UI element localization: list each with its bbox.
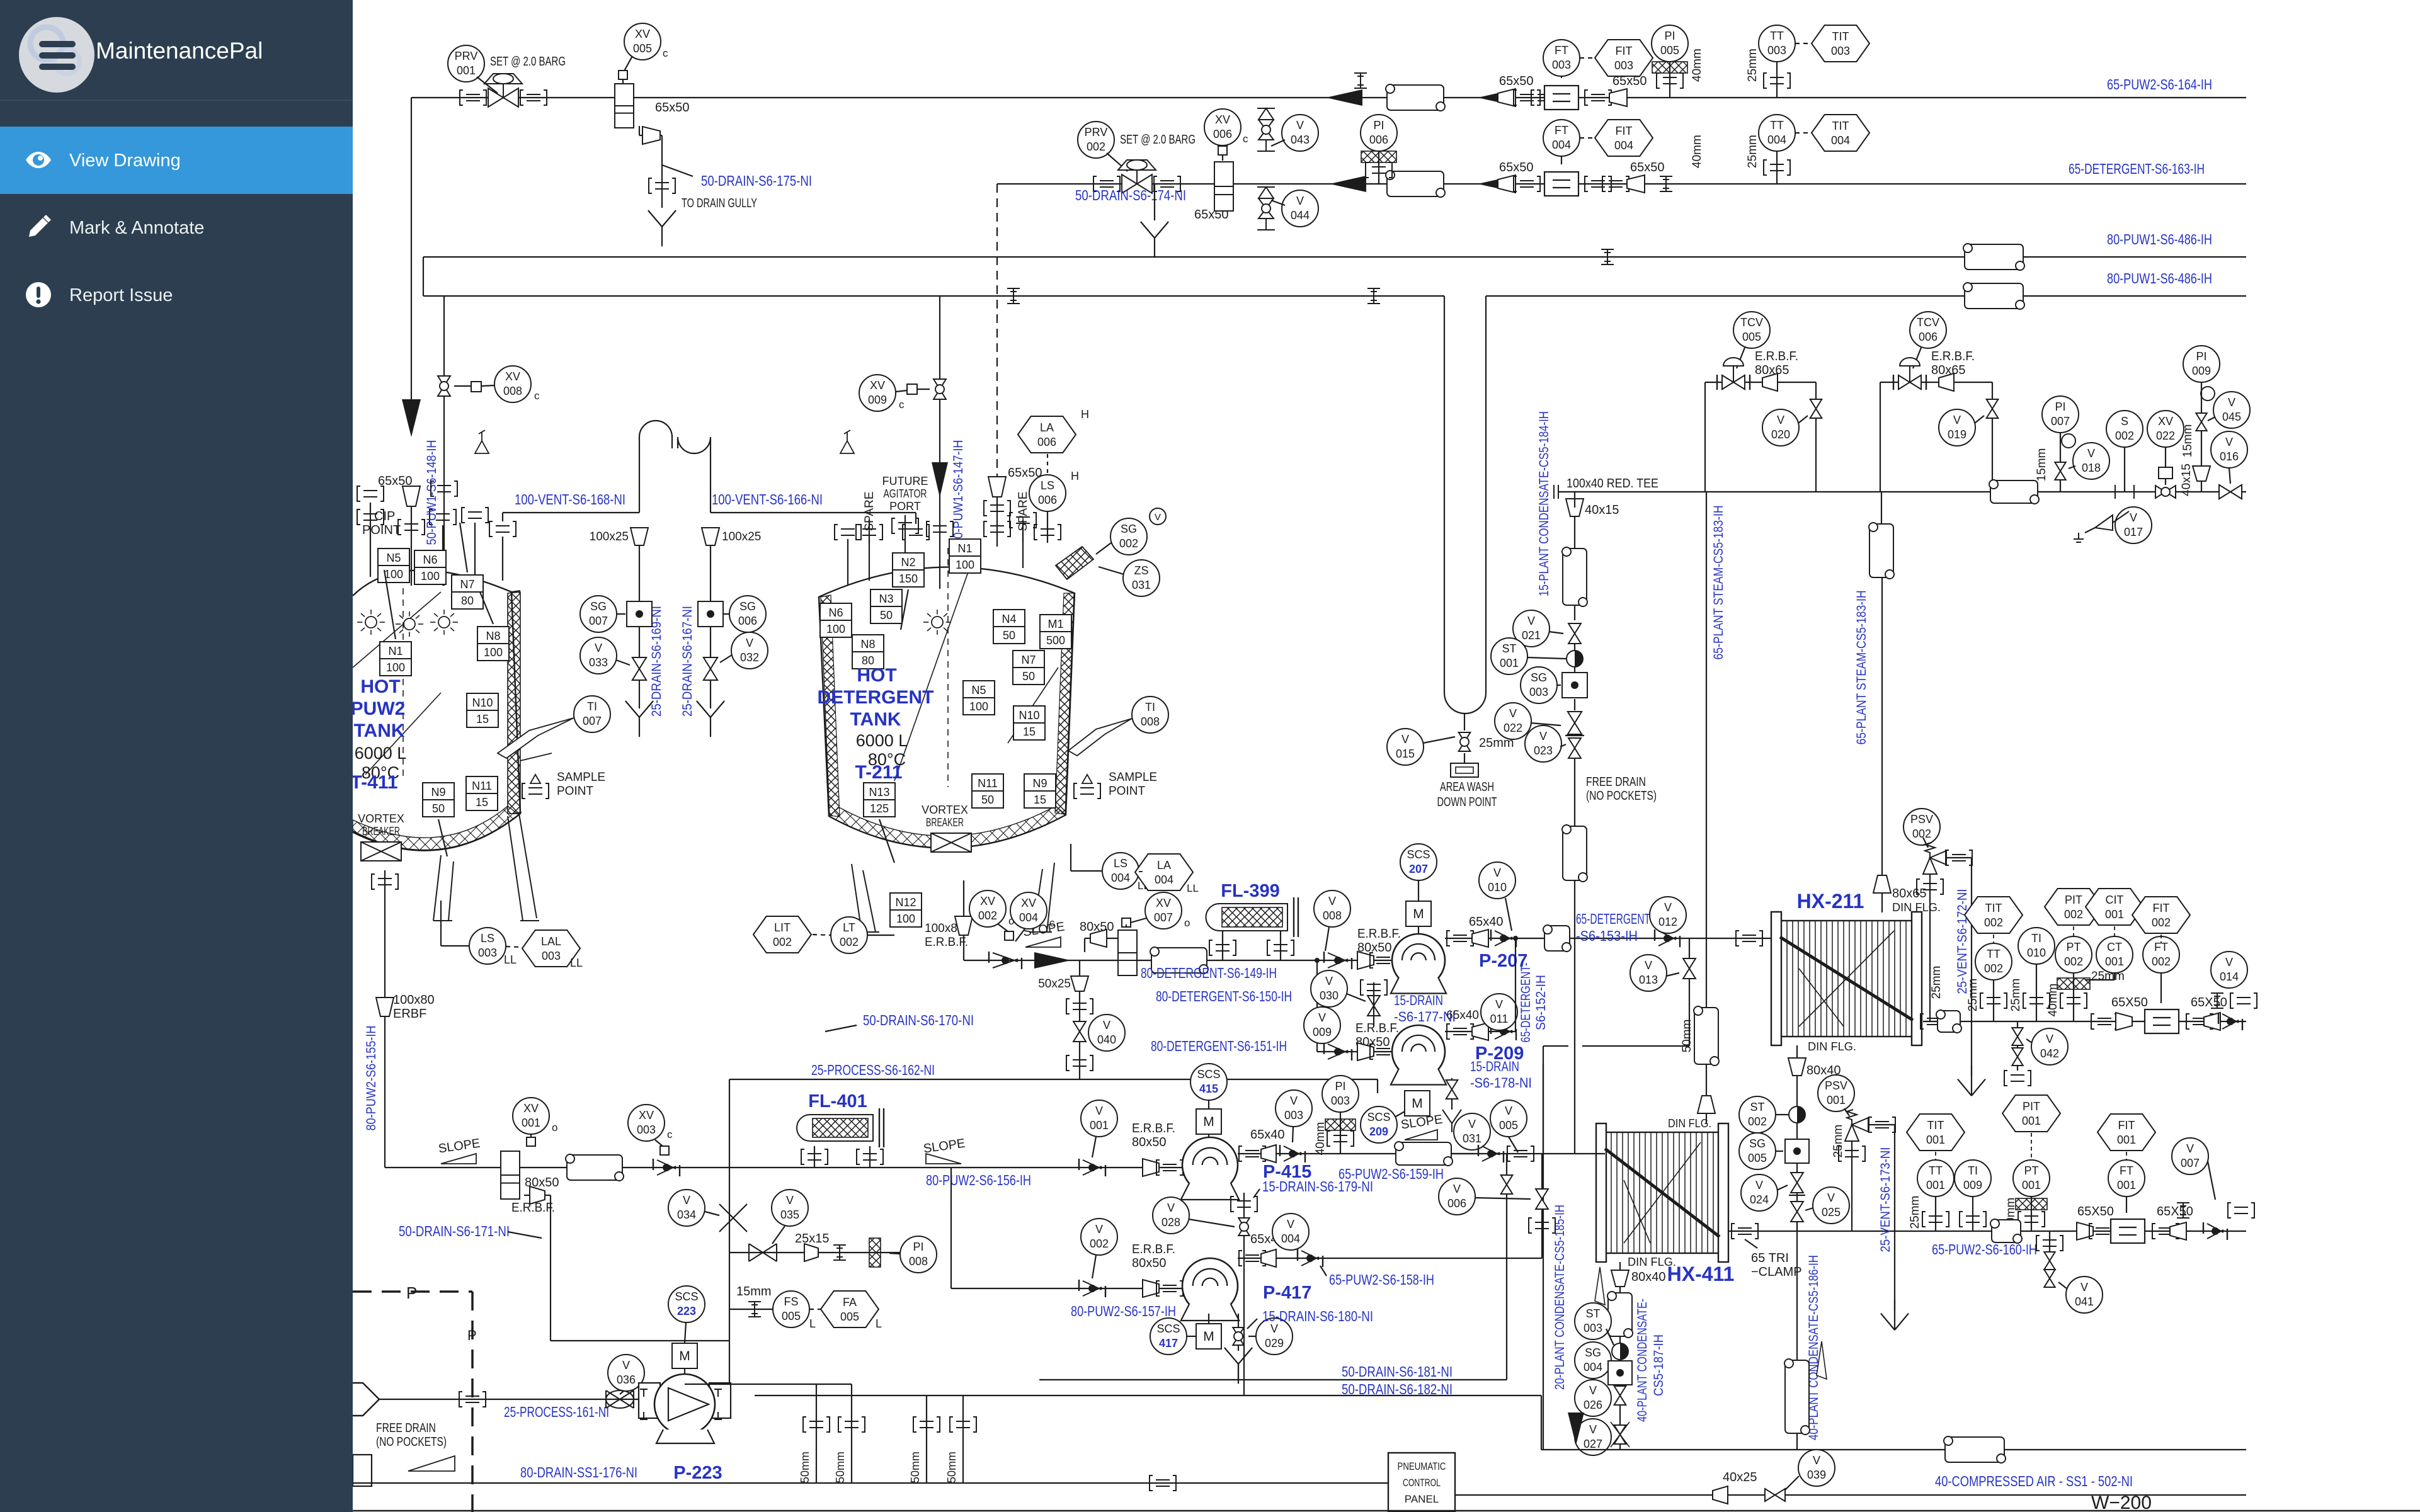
- svg-text:003: 003: [637, 1123, 656, 1136]
- instrument FIT-002: [2132, 897, 2190, 933]
- instrument XV-001: [513, 1098, 549, 1134]
- wire vent header 166: [711, 512, 916, 513]
- svg-text:031: 031: [1132, 579, 1151, 591]
- svg-text:N12: N12: [895, 896, 916, 909]
- tank T-211 outlet drop: [963, 880, 964, 960]
- steam trap ST-001: [1567, 651, 1583, 667]
- svg-text:c: c: [667, 1128, 673, 1140]
- svg-text:P: P: [467, 1327, 477, 1343]
- svg-text:022: 022: [1504, 722, 1522, 734]
- svg-text:V: V: [1296, 119, 1304, 132]
- pipe sleeve free drain: [1562, 825, 1587, 882]
- pipe sleeve steam drop hx211: [1869, 523, 1894, 579]
- instrument PI-009: [2183, 346, 2220, 382]
- wire drain to gully: [661, 135, 663, 208]
- wire crossover to HX-411 feed: [1582, 1045, 1689, 1047]
- svg-text:LA: LA: [1040, 421, 1054, 434]
- svg-text:25-PROCESS-161-NI: 25-PROCESS-161-NI: [504, 1404, 609, 1420]
- svg-text:(NO POCKETS): (NO POCKETS): [376, 1435, 447, 1449]
- svg-text:65-PLANT STEAM-CS5-183-IH: 65-PLANT STEAM-CS5-183-IH: [1711, 506, 1726, 660]
- valve V-024: [1791, 1173, 1803, 1193]
- svg-text:80-PUW1-S6-486-IH: 80-PUW1-S6-486-IH: [2107, 231, 2212, 247]
- instrument V-010: [1479, 862, 1515, 899]
- svg-text:003: 003: [1614, 59, 1633, 72]
- tank T-211 nozzle M1: [1040, 615, 1071, 649]
- pipe sleeve condensate header: [1944, 1436, 2006, 1463]
- spec break L2: [1660, 176, 1672, 191]
- svg-text:PI: PI: [1335, 1080, 1345, 1093]
- svg-text:004: 004: [1281, 1232, 1300, 1245]
- svg-text:V: V: [1095, 1105, 1103, 1117]
- instrument V-041: [2066, 1276, 2103, 1313]
- instrument V-024: [1741, 1174, 1778, 1211]
- svg-text:80-DETERGENT-S6-150-IH: 80-DETERGENT-S6-150-IH: [1156, 988, 1292, 1004]
- svg-text:25mm: 25mm: [1479, 736, 1514, 750]
- svg-text:001: 001: [1926, 1134, 1945, 1146]
- reducer 100x25 right: [702, 528, 719, 545]
- filter FL-399: [1206, 904, 1288, 931]
- drain Y P-417: [1224, 1348, 1252, 1384]
- instrument FT-001: [2108, 1160, 2145, 1197]
- valve V-025: [1791, 1202, 1803, 1222]
- svg-text:009: 009: [1313, 1026, 1332, 1038]
- instrument V-034b: [668, 1190, 705, 1226]
- wire steam header 100x40 RED TEE: [1558, 491, 2246, 492]
- svg-text:LS: LS: [1114, 857, 1127, 870]
- valve V-042 drop: [2017, 1021, 2018, 1071]
- svg-text:15-PLANT CONDENSATE-CS5-184-IH: 15-PLANT CONDENSATE-CS5-184-IH: [1537, 411, 1551, 596]
- svg-text:CIP: CIP: [374, 509, 395, 523]
- instrument SCS-209: [1361, 1106, 1397, 1143]
- svg-text:034: 034: [677, 1208, 696, 1221]
- svg-text:008: 008: [503, 385, 522, 397]
- instrument V-020: [1762, 409, 1799, 446]
- vent gooseneck left: [639, 421, 672, 513]
- instrument V-014: [2211, 952, 2247, 988]
- svg-text:FIT: FIT: [1616, 125, 1633, 137]
- tank T-211 nozzle N3: [870, 589, 902, 623]
- instrument TI-009: [1955, 1160, 1991, 1197]
- tank T-211 internal lines: [894, 567, 970, 781]
- wire detergent suction header: [964, 960, 1317, 961]
- svg-text:25x15: 25x15: [795, 1232, 830, 1246]
- valve-dot P-415 suction: [1079, 1159, 1105, 1176]
- svg-text:006: 006: [1447, 1197, 1466, 1210]
- instrument V-031: [1454, 1113, 1490, 1150]
- relief tri symbol left of vents: [475, 430, 489, 453]
- svg-text:DOWN POINT: DOWN POINT: [1437, 795, 1497, 809]
- svg-text:50-DRAIN-S6-175-NI: 50-DRAIN-S6-175-NI: [701, 173, 812, 189]
- svg-text:50mm: 50mm: [945, 1452, 958, 1483]
- instrument PSV-001: [1818, 1075, 1854, 1111]
- svg-text:009: 009: [1963, 1179, 1982, 1191]
- svg-text:035: 035: [780, 1208, 799, 1221]
- svg-text:XV: XV: [1156, 897, 1171, 909]
- control valve TCV-006: [1898, 375, 1921, 389]
- svg-text:65-PLANT STEAM-CS5-183-IH: 65-PLANT STEAM-CS5-183-IH: [1854, 591, 1869, 745]
- svg-text:POINT: POINT: [557, 785, 593, 798]
- svg-text:032: 032: [740, 651, 759, 664]
- flange flags near T-411 top: [357, 486, 384, 501]
- svg-text:100: 100: [969, 700, 988, 713]
- svg-text:25mm: 25mm: [2009, 979, 2023, 1012]
- app logo: [19, 17, 94, 93]
- pump P-417: [1182, 1258, 1238, 1314]
- svg-text:40-PLANT CONDENSATE-: 40-PLANT CONDENSATE-: [1635, 1299, 1650, 1422]
- svg-text:H: H: [1071, 470, 1079, 482]
- svg-text:N1: N1: [957, 542, 972, 555]
- flow arrow L1 b: [1478, 89, 1514, 106]
- svg-text:N8: N8: [860, 638, 875, 651]
- svg-text:PANEL: PANEL: [1405, 1493, 1439, 1505]
- svg-text:N13: N13: [869, 786, 889, 799]
- svg-text:024: 024: [1750, 1193, 1769, 1206]
- svg-text:65-DETERGENT-S6-163-IH: 65-DETERGENT-S6-163-IH: [2069, 161, 2205, 177]
- svg-text:25mm: 25mm: [1930, 966, 1943, 999]
- svg-text:N6: N6: [828, 606, 843, 619]
- junction suction split: [1316, 960, 1318, 1052]
- svg-text:40mm: 40mm: [1691, 48, 1704, 82]
- wire vent drop left: [639, 545, 640, 708]
- svg-text:V: V: [1318, 1011, 1326, 1024]
- angle valve V-017: [2095, 511, 2129, 530]
- instrument SCS-223: [668, 1286, 705, 1322]
- svg-text:65x50: 65x50: [1499, 74, 1534, 88]
- P-209 discharge piping: [1445, 1031, 1515, 1032]
- svg-text:N5: N5: [971, 684, 986, 696]
- reducer 65X50 product out: [2152, 1224, 2179, 1239]
- svg-text:PT: PT: [2024, 1164, 2038, 1177]
- sight glass SG-007: [580, 596, 617, 632]
- instrument XV-003: [628, 1105, 665, 1141]
- svg-text:65x40: 65x40: [1469, 915, 1504, 929]
- svg-text:V: V: [1589, 1384, 1597, 1397]
- svg-text:013: 013: [1639, 974, 1658, 986]
- wire L3-L4 left closure: [423, 257, 424, 296]
- valve XV-008 body: [438, 376, 450, 396]
- instrument SCS-415: [1190, 1064, 1227, 1100]
- tank T-211 nozzle N10: [1013, 706, 1045, 740]
- svg-text:PI: PI: [1373, 119, 1384, 132]
- svg-text:CS5-187-IH: CS5-187-IH: [1652, 1334, 1666, 1396]
- svg-text:65x50: 65x50: [1630, 161, 1665, 174]
- svg-text:M: M: [1203, 1115, 1214, 1129]
- reducer 65x50 L2 out: [1627, 175, 1645, 193]
- svg-text:PI: PI: [2055, 401, 2065, 413]
- svg-text:SCS: SCS: [675, 1290, 698, 1303]
- instrument FA-005: [821, 1291, 879, 1327]
- nav item Mark & Annotate: [0, 194, 353, 261]
- instrument V-039: [1798, 1450, 1835, 1486]
- instrument ZS-031: [1123, 560, 1160, 596]
- svg-text:TI: TI: [1968, 1164, 1978, 1177]
- instrument CT-001: [2096, 936, 2133, 973]
- svg-text:-S6-178-NI: -S6-178-NI: [1470, 1075, 1532, 1091]
- instrument FT-004: [1543, 120, 1580, 156]
- svg-text:002: 002: [2064, 955, 2083, 968]
- reducer 25x15: [804, 1244, 818, 1261]
- instrument XV-009: [859, 375, 896, 411]
- svg-text:SCS: SCS: [1197, 1068, 1220, 1081]
- svg-text:V: V: [683, 1194, 690, 1207]
- svg-text:100x25: 100x25: [590, 530, 629, 543]
- svg-text:V: V: [1755, 1179, 1763, 1191]
- svg-text:002: 002: [2064, 908, 2083, 921]
- svg-text:M: M: [1413, 907, 1424, 921]
- svg-text:PNEUMATIC: PNEUMATIC: [1398, 1460, 1446, 1472]
- svg-text:S6-152-IH: S6-152-IH: [1534, 975, 1548, 1030]
- wire line L2 65-DETERGENT-S6-163-IH: [997, 183, 2246, 185]
- wire line L1 65-PUW2-S6-164-IH: [411, 97, 2246, 98]
- svg-text:SG: SG: [1585, 1346, 1601, 1359]
- svg-text:004: 004: [1552, 139, 1571, 151]
- svg-text:40x15: 40x15: [1585, 503, 1619, 517]
- wire line L3 80-PUW1-S6-486-IH: [423, 256, 2246, 258]
- svg-text:004: 004: [1767, 134, 1786, 146]
- svg-text:T-411: T-411: [350, 772, 397, 793]
- valve-dot V-007: [2203, 1222, 2227, 1240]
- svg-text:N5: N5: [386, 552, 401, 564]
- tank T-211 nozzle N6: [820, 603, 852, 637]
- slope wedge cond: [1817, 1341, 1827, 1379]
- steam trap ST-002 sym: [1789, 1106, 1805, 1123]
- svg-text:033: 033: [589, 656, 608, 669]
- svg-text:15-DRAIN: 15-DRAIN: [1470, 1059, 1519, 1074]
- reducer 65x50 L2: [1498, 175, 1515, 193]
- instrument V-003: [1276, 1090, 1312, 1127]
- svg-text:LA: LA: [1157, 859, 1171, 872]
- svg-text:029: 029: [1265, 1337, 1284, 1350]
- reducer 65x40 P-209: [1472, 1023, 1488, 1040]
- svg-text:N10: N10: [472, 696, 493, 709]
- vent arrow 173: [1881, 1300, 1909, 1330]
- instrument V-016: [2211, 431, 2247, 468]
- svg-text:o: o: [552, 1122, 557, 1134]
- svg-text:50-PUW1-S6-148-IH: 50-PUW1-S6-148-IH: [425, 440, 439, 545]
- svg-text:80-DETERGENT-S6-151-IH: 80-DETERGENT-S6-151-IH: [1151, 1038, 1287, 1054]
- svg-text:15mm: 15mm: [2181, 424, 2195, 458]
- svg-text:031: 031: [1463, 1132, 1481, 1145]
- svg-text:N7: N7: [1021, 654, 1036, 666]
- svg-text:016: 016: [2220, 450, 2239, 463]
- instrument PIT-001: [2002, 1095, 2060, 1132]
- valve V-032 body: [704, 657, 717, 680]
- wire condensate to header: [1796, 1222, 1798, 1450]
- svg-text:007: 007: [2051, 415, 2070, 428]
- svg-text:004: 004: [1584, 1361, 1602, 1373]
- svg-text:S: S: [2121, 415, 2128, 428]
- svg-text:BREAKER: BREAKER: [926, 816, 964, 829]
- svg-text:SET @ 2.0 BARG: SET @ 2.0 BARG: [490, 55, 566, 69]
- valve V-041 drop: [2049, 1231, 2050, 1287]
- svg-text:001: 001: [2022, 1115, 2041, 1127]
- svg-text:223: 223: [677, 1305, 696, 1317]
- wire CIP to tank: [411, 506, 412, 586]
- instrument V-019: [1939, 409, 1975, 446]
- svg-text:50mm: 50mm: [799, 1452, 811, 1483]
- svg-text:DIN FLG.: DIN FLG.: [1892, 901, 1941, 914]
- seal pot below XV-005: [615, 84, 634, 128]
- valve V-034 X: [719, 1204, 747, 1232]
- reducer 80x65 HX-411 top: [1698, 1096, 1715, 1113]
- off-page connector process in: [353, 1383, 379, 1416]
- svg-text:V: V: [622, 1359, 630, 1372]
- wire 65-DETERGENT-S6-152-IH riser: [1515, 938, 1516, 1032]
- P-417 discharge: [1238, 1258, 1542, 1259]
- svg-text:001: 001: [457, 64, 476, 77]
- HX-411 product outlet: [1728, 1231, 2246, 1232]
- svg-text:TT: TT: [1770, 119, 1784, 132]
- instrument PT-001: [2013, 1160, 2050, 1197]
- valve PRV-001 body: [488, 88, 518, 107]
- reducer 65X50 after FT-002: [2186, 1014, 2213, 1029]
- svg-text:TANK: TANK: [353, 720, 404, 741]
- instrument PI-005 w/ hose: [1652, 25, 1688, 62]
- svg-text:DIN FLG.: DIN FLG.: [1628, 1256, 1676, 1268]
- slope symbol 159: [1405, 1130, 1437, 1140]
- HX-211 outlet line: [1923, 1021, 2246, 1022]
- wire 158 riser to header: [1541, 1154, 1543, 1258]
- wire 50-DRAIN-S6-182-NI: [755, 1395, 1541, 1396]
- svg-text:E.R.B.F.: E.R.B.F.: [1132, 1242, 1175, 1256]
- svg-text:TCV: TCV: [1917, 316, 1939, 329]
- svg-text:N9: N9: [431, 786, 445, 799]
- wire drop to XV-008 valve: [443, 296, 445, 586]
- P-209 drain w/ strainer: [1451, 1078, 1453, 1110]
- svg-text:50mm: 50mm: [834, 1452, 847, 1483]
- svg-text:012: 012: [1658, 916, 1677, 928]
- instrument V-017: [2115, 507, 2152, 543]
- tank T-411 nozzle N8: [477, 627, 509, 661]
- svg-text:80: 80: [461, 594, 474, 607]
- nav item View Drawing (active): [0, 127, 353, 194]
- svg-text:005: 005: [840, 1310, 859, 1323]
- svg-text:V: V: [1328, 895, 1336, 907]
- tank T-211 nozzle N4: [993, 610, 1025, 644]
- svg-text:80-PUW2-S6-156-IH: 80-PUW2-S6-156-IH: [926, 1172, 1031, 1188]
- pump P-223 positive displacement: [639, 1383, 660, 1418]
- instrument XV-022: [2147, 411, 2184, 447]
- valve P-207 drain: [1367, 996, 1380, 1016]
- svg-text:c: c: [534, 390, 540, 402]
- svg-text:209: 209: [1369, 1125, 1388, 1138]
- thermowell TI-007: [574, 696, 610, 732]
- svg-text:PORT: PORT: [889, 500, 921, 513]
- svg-text:100: 100: [956, 559, 974, 571]
- svg-text:V: V: [1155, 512, 1161, 523]
- TCV-005 bypass loop: [1705, 382, 1816, 383]
- valve-dot P-207 discharge: [1491, 929, 1516, 947]
- heat exchanger HX-211: [1780, 921, 1913, 1037]
- instrument V-042: [2031, 1028, 2068, 1065]
- svg-text:005: 005: [1499, 1119, 1518, 1132]
- svg-text:003: 003: [1584, 1322, 1602, 1334]
- svg-text:002: 002: [1119, 537, 1138, 550]
- svg-text:N3: N3: [879, 593, 893, 605]
- svg-text:15: 15: [476, 796, 488, 809]
- svg-text:80-DRAIN-SS1-176-NI: 80-DRAIN-SS1-176-NI: [520, 1464, 637, 1481]
- svg-text:PI: PI: [2196, 350, 2206, 363]
- svg-text:014: 014: [2220, 970, 2239, 983]
- instrument LT-002: [831, 917, 867, 953]
- svg-text:N4: N4: [1002, 613, 1016, 625]
- pneumatic control panel: [1388, 1453, 1455, 1512]
- svg-text:V: V: [2087, 447, 2095, 460]
- spray ball T-211: [932, 617, 943, 628]
- valve V-027: [1614, 1425, 1626, 1444]
- svg-text:044: 044: [1291, 209, 1310, 222]
- svg-text:80-PUW2-S6-155-IH: 80-PUW2-S6-155-IH: [364, 1026, 379, 1131]
- svg-text:TANK: TANK: [850, 709, 901, 730]
- condensate U-loop: [1444, 296, 1445, 693]
- svg-text:XV: XV: [523, 1102, 539, 1115]
- svg-text:PSV: PSV: [1910, 813, 1933, 826]
- svg-text:V: V: [2080, 1281, 2088, 1293]
- svg-text:V: V: [1813, 1454, 1820, 1467]
- instrument V-004: [1272, 1214, 1309, 1250]
- pump P-207: [1392, 934, 1445, 987]
- instrument V-022: [1495, 703, 1531, 739]
- reducer P-207 suction: [1357, 952, 1374, 969]
- valve XV-009 body: [933, 379, 946, 399]
- svg-text:006: 006: [1038, 494, 1057, 506]
- instrument S-002: [2106, 411, 2143, 447]
- svg-text:100: 100: [386, 661, 405, 674]
- instrument LIT-002: [753, 916, 811, 953]
- nozzle stubs T-211 dome: [847, 539, 848, 586]
- reducer 65x50 T-211 CIP: [988, 477, 1006, 497]
- flow meter FT-002 body: [2145, 1009, 2179, 1033]
- label 50-DRAIN-S6-175-NI: [662, 165, 693, 176]
- svg-text:65X50: 65X50: [2157, 1205, 2193, 1219]
- instrument XV-008: [494, 366, 531, 402]
- svg-text:005: 005: [1660, 44, 1679, 57]
- svg-text:HX-211: HX-211: [1797, 890, 1864, 912]
- svg-text:002: 002: [1912, 827, 1931, 840]
- wire line L4 80-PUW1-S6-486-IH left part: [423, 295, 1444, 297]
- reducer P-415 suction: [1143, 1159, 1159, 1176]
- svg-text:TT: TT: [1929, 1164, 1943, 1177]
- instrument TI-010: [2018, 928, 2055, 964]
- spec break on L3: [1601, 249, 1614, 264]
- instrument XV-005: [624, 23, 661, 60]
- svg-text:N2: N2: [901, 556, 915, 569]
- instrument TIT-004: [1812, 115, 1869, 151]
- relief valve PSV-001: [1845, 1110, 1868, 1141]
- valve-dot P-207 suction: [1324, 952, 1352, 969]
- svg-text:004: 004: [1155, 873, 1173, 886]
- svg-text:FREE DRAIN: FREE DRAIN: [376, 1421, 436, 1435]
- valve V-023: [1568, 738, 1581, 758]
- svg-text:N10: N10: [1019, 709, 1039, 722]
- svg-text:25-PROCESS-S6-162-NI: 25-PROCESS-S6-162-NI: [811, 1062, 935, 1078]
- sight glass SG-006: [729, 596, 766, 632]
- svg-text:SG: SG: [1749, 1137, 1766, 1150]
- svg-text:50: 50: [1003, 629, 1015, 642]
- HX-211 steam inlet: [1881, 892, 1883, 912]
- svg-text:V: V: [1777, 414, 1784, 426]
- svg-text:ST: ST: [1502, 642, 1516, 655]
- svg-text:010: 010: [2027, 946, 2046, 959]
- svg-text:15: 15: [476, 713, 489, 725]
- instrument V-032: [731, 632, 768, 669]
- svg-text:DETERGENT: DETERGENT: [817, 687, 933, 708]
- off-page connector drain: [353, 1455, 372, 1486]
- svg-text:150: 150: [899, 572, 918, 585]
- svg-text:V: V: [1468, 1118, 1476, 1130]
- instrument V-012: [1650, 897, 1686, 933]
- vent arrow 172: [1958, 1066, 1985, 1096]
